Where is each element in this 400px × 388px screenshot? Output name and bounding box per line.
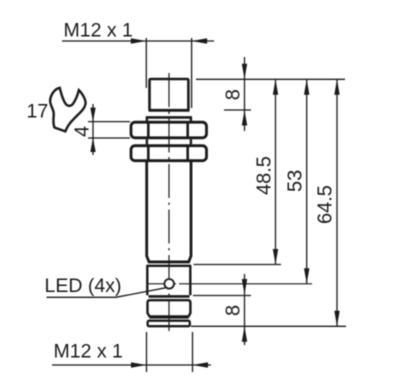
sensor top cap xyxy=(150,79,189,110)
dimension 4: arrow down xyxy=(90,108,95,122)
svg-text:48.5: 48.5 xyxy=(254,156,276,195)
barrel bottom edge xyxy=(148,261,190,264)
dimension 64.5: arrow up xyxy=(334,79,339,95)
dimension M12x1 top: arrow left xyxy=(192,38,208,43)
dimension 8 bottom: arrow up xyxy=(242,326,247,342)
extension line right y264.5 xyxy=(194,264,282,266)
extension line right y110 xyxy=(224,109,251,111)
connector tip band xyxy=(148,321,190,327)
dimension 53: line xyxy=(306,79,308,283)
extension line right y295.5 xyxy=(193,295,251,297)
dimension 53: arrow down xyxy=(304,268,309,284)
dimension M12x1 bottom: arrow right xyxy=(131,362,147,367)
dimension M12x1 top: left extension line xyxy=(145,38,147,88)
washer between nuts xyxy=(147,139,191,144)
dimension 4: dim line vertical xyxy=(92,104,94,155)
svg-text:LED (4x): LED (4x) xyxy=(45,275,122,297)
svg-text:M12 x 1: M12 x 1 xyxy=(64,20,133,42)
wrench icon xyxy=(50,88,85,132)
svg-text:M12 x 1: M12 x 1 xyxy=(54,341,123,363)
hex nut 2 xyxy=(131,146,207,161)
dimension 4: bottom extension line xyxy=(88,137,130,139)
svg-text:53: 53 xyxy=(285,170,307,192)
dimension 53: arrow up xyxy=(304,79,309,95)
centerline vertical xyxy=(168,73,170,331)
dimension M12x1 bottom: right extension line xyxy=(192,332,194,372)
sensor washer sides xyxy=(147,117,191,121)
dimension 48.5: line xyxy=(275,79,277,264)
LED ring section xyxy=(146,266,191,296)
dimension 8 bottom: line xyxy=(244,274,246,345)
dimension 64.5: arrow down xyxy=(334,311,339,327)
barrel xyxy=(147,162,191,262)
connector thread bottom edge xyxy=(150,316,189,318)
dimension M12x1 top: dim line xyxy=(62,40,214,42)
svg-text:17: 17 xyxy=(27,101,49,123)
dimension 48.5: arrow up xyxy=(273,79,278,95)
sensor washer top edge xyxy=(146,116,192,119)
dimension M12x1 bottom: dim line xyxy=(52,364,211,366)
dimension M12x1 bottom: left extension line xyxy=(146,332,148,372)
hex nut 1 xyxy=(131,122,207,138)
extension line right y326.3 xyxy=(191,325,346,327)
svg-text:8: 8 xyxy=(223,305,245,316)
sensor cap bottom edge xyxy=(149,109,190,112)
dimension 8 bottom: arrow down xyxy=(242,279,247,295)
dimension M12x1 top: arrow right xyxy=(131,38,147,43)
connector thread section xyxy=(148,300,191,316)
dimension 8 top: arrow up xyxy=(242,110,247,126)
extension line right y79 xyxy=(196,78,345,80)
dimension M12x1 bottom: arrow left xyxy=(193,362,209,367)
dimension 8 top: arrow down xyxy=(242,64,247,80)
hex nut 1 facets xyxy=(148,123,187,138)
LED leader line xyxy=(47,288,166,298)
svg-text:4: 4 xyxy=(71,126,93,137)
svg-text:8: 8 xyxy=(223,89,245,100)
LED ring bottom edge xyxy=(149,295,190,298)
dimension 64.5: line xyxy=(336,79,338,326)
dimension 4: top extension line xyxy=(88,121,130,123)
centerline horizontal through LED xyxy=(148,283,313,285)
dimension 4: arrow up xyxy=(90,138,95,152)
LED circle xyxy=(164,279,174,289)
dimension 8 top: line xyxy=(244,57,246,131)
dimension 48.5: arrow down xyxy=(273,249,278,265)
hex nut 2 facets xyxy=(148,146,187,161)
svg-text:64.5: 64.5 xyxy=(315,185,337,224)
dimension M12x1 top: right extension line xyxy=(191,38,193,108)
